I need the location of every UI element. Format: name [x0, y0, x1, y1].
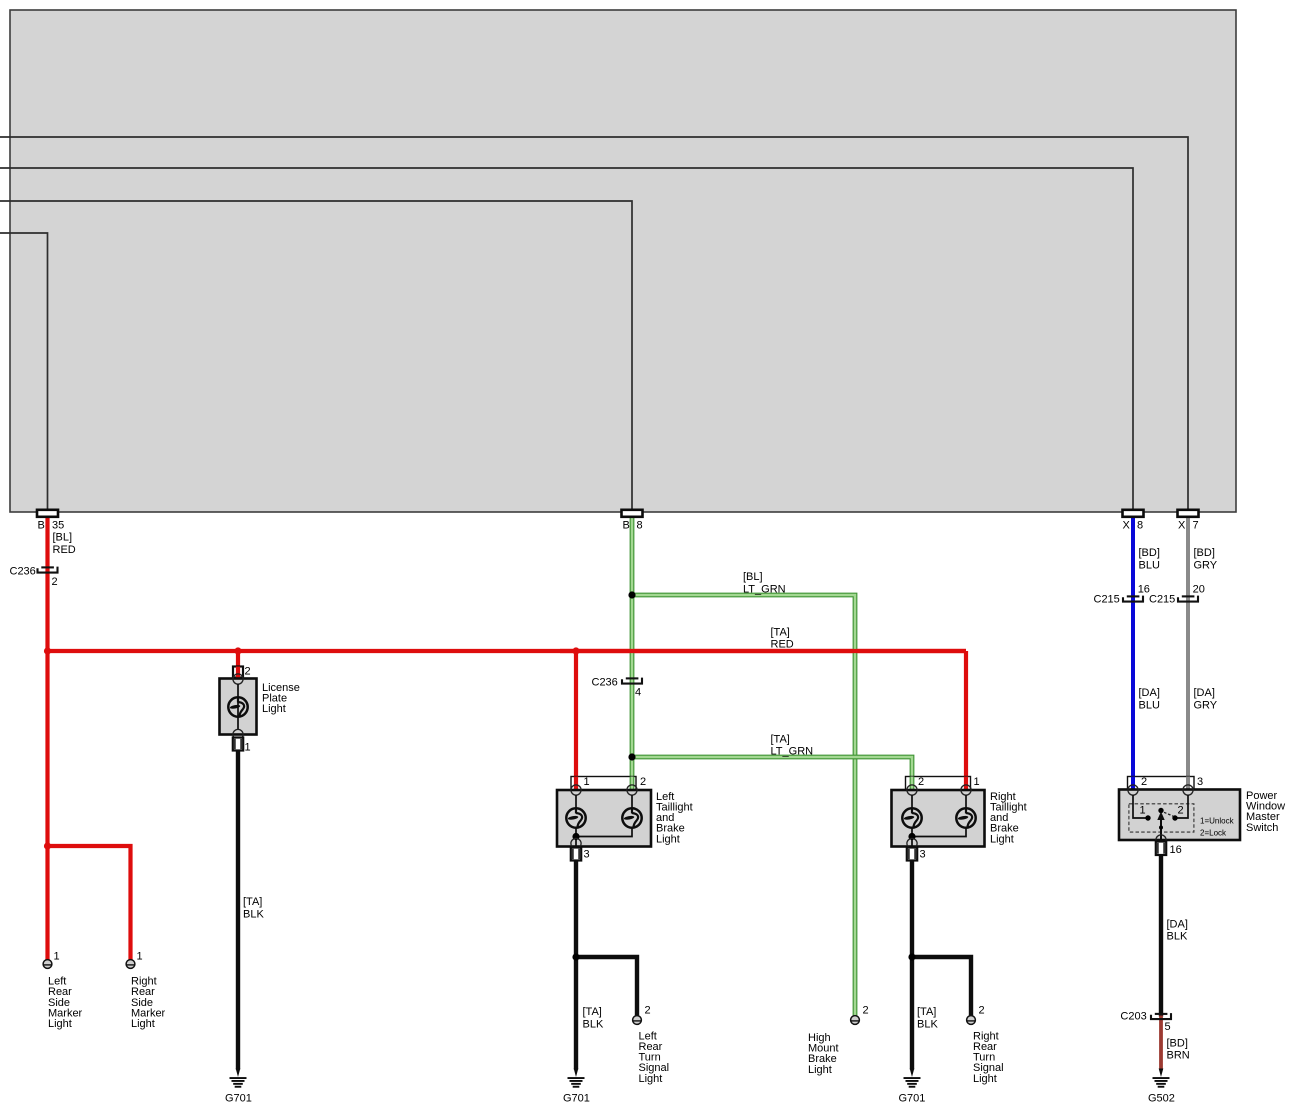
svg-text:C203: C203	[1120, 1011, 1146, 1023]
ground G701 license	[230, 1069, 247, 1088]
node junction red at C236 drop	[44, 647, 51, 654]
wire black right taillight ground	[910, 860, 914, 1070]
svg-text:2: 2	[52, 576, 58, 588]
svg-text:BRN: BRN	[1167, 1050, 1190, 1062]
wire black branch to right rear turn signal	[912, 957, 971, 1016]
svg-text:Light: Light	[808, 1064, 832, 1076]
wire green [BL] LT_GRN branch to high mount brake light	[632, 595, 855, 1016]
ground G701 right taillight	[904, 1069, 921, 1088]
terminal Left Rear Side Marker Light	[43, 960, 52, 969]
svg-text:C215: C215	[1094, 594, 1120, 606]
wire internal left taillight	[576, 795, 632, 847]
wire blue into pin 2	[1131, 777, 1135, 792]
svg-text:RED: RED	[771, 639, 794, 651]
svg-text:[BL]: [BL]	[53, 532, 73, 544]
wire W4 inside module to B35	[0, 233, 48, 511]
lamp License Plate Light box	[220, 679, 257, 735]
label Right Rear Turn Signal Light	[973, 1030, 1004, 1084]
svg-text:[BD]: [BD]	[1194, 547, 1215, 559]
label High Mount Brake Light	[808, 1032, 839, 1076]
svg-text:1: 1	[245, 741, 251, 753]
bulb right brake light	[956, 808, 975, 827]
svg-text:7: 7	[1193, 520, 1199, 532]
svg-text:C236: C236	[592, 677, 618, 689]
switch internal dashed boundary	[1129, 804, 1194, 832]
svg-text:X: X	[1178, 520, 1186, 532]
svg-text:3: 3	[584, 848, 590, 860]
svg-text:[TA]: [TA]	[243, 896, 262, 908]
svg-text:Light: Light	[973, 1073, 997, 1085]
svg-text:GRY: GRY	[1194, 699, 1218, 711]
svg-text:[BD]: [BD]	[1139, 547, 1160, 559]
svg-text:Light: Light	[990, 833, 1014, 845]
svg-text:2: 2	[245, 666, 251, 678]
svg-text:2: 2	[1178, 805, 1184, 817]
svg-text:BLU: BLU	[1139, 559, 1160, 571]
svg-text:Light: Light	[639, 1073, 663, 1085]
svg-text:1=Unlock: 1=Unlock	[1200, 816, 1235, 825]
connector housing power window master switch	[1128, 777, 1195, 790]
svg-text:1: 1	[137, 950, 143, 962]
label wire [DA] BLK	[1167, 918, 1188, 942]
svg-text:Light: Light	[656, 833, 680, 845]
connector housing right taillight	[906, 777, 971, 791]
svg-text:[TA]: [TA]	[771, 733, 790, 745]
svg-text:8: 8	[1137, 520, 1143, 532]
connector pin 2 of license plate light	[233, 667, 243, 685]
svg-text:RED: RED	[53, 544, 76, 556]
svg-text:20: 20	[1193, 584, 1205, 596]
pin circle 2	[907, 785, 917, 795]
svg-text:[TA]: [TA]	[917, 1006, 936, 1018]
svg-text:C236: C236	[10, 566, 36, 578]
bulb left taillight	[566, 808, 585, 827]
node junction internal	[908, 833, 915, 840]
svg-text:GRY: GRY	[1194, 559, 1218, 571]
svg-text:[DA]: [DA]	[1194, 687, 1215, 699]
label Power Window Master Switch	[1246, 790, 1285, 834]
wire red into pin 1	[964, 777, 968, 792]
label Right Rear Side Marker Light	[131, 976, 166, 1030]
svg-text:BLK: BLK	[243, 908, 264, 920]
label wire [TA] BLK	[917, 1006, 938, 1030]
label Left Taillight and Brake Light	[656, 791, 693, 845]
svg-text:G701: G701	[563, 1093, 590, 1105]
pin circle 1	[571, 785, 581, 795]
connector pin 3 of left taillight	[571, 848, 581, 861]
wire brown [BD] BRN to ground	[1159, 1016, 1163, 1070]
wire internal right taillight	[912, 795, 966, 847]
label Left Rear Side Marker Light	[48, 976, 83, 1030]
wire green into pin 2	[630, 777, 635, 792]
wire black branch to left rear turn signal	[576, 957, 637, 1016]
wire red bus [TA] RED horizontal	[48, 649, 967, 653]
svg-text:[TA]: [TA]	[583, 1006, 602, 1018]
node small dot on actuator	[1159, 826, 1163, 830]
label wire [BL] RED	[53, 532, 76, 556]
label wire [BD] BLU	[1139, 547, 1160, 571]
node junction green at [TA] branch	[628, 753, 635, 760]
svg-text:BLK: BLK	[1167, 931, 1188, 943]
wire red B35 vertical to left side markers	[45, 517, 49, 960]
switch common pivot	[1158, 808, 1163, 813]
switch actuator arrow	[1160, 818, 1162, 841]
svg-text:3: 3	[920, 848, 926, 860]
wire W2 inside module to X8	[0, 168, 1133, 511]
wire black left taillight ground	[574, 860, 578, 1070]
pin circle 16	[1156, 835, 1166, 845]
node junction black	[572, 953, 579, 960]
label wire [BD] BRN	[1167, 1037, 1190, 1061]
svg-text:2: 2	[645, 1004, 651, 1016]
pin circle 3	[907, 838, 917, 848]
connector C236 pin 2	[38, 567, 58, 573]
terminal High Mount Brake Light	[851, 1016, 860, 1025]
wire red into pin 1	[574, 777, 578, 792]
wire W3 inside module to B8	[0, 201, 632, 511]
svg-text:4: 4	[635, 686, 641, 698]
terminal Right Rear Turn Signal Light	[967, 1016, 976, 1025]
connector X7 at module	[1178, 510, 1199, 517]
connector pin 16 of switch	[1156, 842, 1166, 856]
svg-text:2: 2	[640, 776, 646, 788]
switch blade dashed to contact 2	[1164, 812, 1174, 816]
svg-text:B: B	[623, 520, 630, 532]
wire black license light to ground	[236, 751, 240, 1070]
label wire [TA] RED	[771, 626, 794, 650]
wire green B8 vertical	[630, 517, 635, 792]
svg-text:5: 5	[1165, 1021, 1171, 1033]
svg-text:2=Lock: 2=Lock	[1200, 828, 1227, 837]
wire gray [BD] GRY X7 vertical	[1186, 517, 1190, 792]
label Right Taillight and Brake Light	[990, 791, 1027, 845]
wire green [TA] LT_GRN branch to right taillight pin 2	[632, 757, 912, 792]
node junction internal	[572, 833, 579, 840]
wire W1 inside module to X7	[0, 137, 1188, 511]
svg-text:BLU: BLU	[1139, 699, 1160, 711]
label wire [TA] BLK	[583, 1006, 604, 1030]
svg-text:1: 1	[1140, 805, 1146, 817]
wire red drop to left taillight pin 1	[574, 651, 578, 792]
svg-text:[BD]: [BD]	[1167, 1037, 1188, 1049]
label wire [BL] LT_GRN	[743, 571, 786, 595]
wire green into pin 2	[910, 777, 915, 792]
ground G502	[1153, 1069, 1170, 1088]
terminal Right Rear Side Marker Light	[126, 960, 135, 969]
svg-text:1: 1	[974, 776, 980, 788]
svg-text:Light: Light	[131, 1018, 155, 1030]
node junction red at side marker jog	[44, 842, 51, 849]
connector C236 pin 4	[622, 678, 642, 684]
svg-text:1: 1	[584, 776, 590, 788]
pin circle 2	[627, 785, 637, 795]
node junction red at license plate light	[234, 647, 241, 654]
bulb left brake light	[622, 808, 641, 827]
contact 2	[1172, 815, 1177, 820]
contact 1	[1145, 815, 1150, 820]
svg-text:Switch: Switch	[1246, 822, 1278, 834]
bulb license plate light	[228, 697, 247, 716]
lamp Right Taillight and Brake Light box	[892, 790, 985, 847]
svg-text:LT_GRN: LT_GRN	[743, 583, 786, 595]
svg-text:B: B	[38, 520, 45, 532]
svg-text:[DA]: [DA]	[1167, 918, 1188, 930]
svg-text:Light: Light	[48, 1018, 72, 1030]
terminal Left Rear Turn Signal Light	[633, 1016, 642, 1025]
svg-text:G502: G502	[1148, 1093, 1175, 1105]
svg-text:3: 3	[1197, 776, 1203, 788]
svg-text:16: 16	[1170, 844, 1182, 856]
svg-text:2: 2	[918, 776, 924, 788]
wire black switch pin 16 down	[1159, 855, 1163, 1017]
svg-text:2: 2	[1141, 776, 1147, 788]
svg-text:G701: G701	[225, 1093, 252, 1105]
wire red drop to right taillight pin 1	[964, 651, 968, 792]
connector B35 at module	[37, 510, 58, 517]
wire blue [BD] BLU X8 vertical	[1131, 517, 1135, 792]
label wire [TA] BLK	[243, 896, 264, 920]
svg-text:BLK: BLK	[583, 1018, 604, 1030]
wire red jog to right side marker	[48, 846, 131, 960]
svg-text:1: 1	[54, 950, 60, 962]
pin circle 1	[233, 729, 243, 739]
lamp Left Taillight and Brake Light box	[557, 790, 651, 847]
label Left Rear Turn Signal Light	[639, 1030, 670, 1084]
label wire [DA] GRY	[1194, 687, 1218, 711]
svg-text:8: 8	[637, 520, 643, 532]
connector C215 pin 16	[1123, 596, 1143, 602]
connector pin 1 of license plate light	[233, 738, 243, 751]
node junction green at [BL] branch	[628, 591, 635, 598]
label wire [TA] LT_GRN	[771, 733, 814, 757]
svg-text:G701: G701	[899, 1093, 926, 1105]
wire red bus over crossings	[560, 649, 966, 653]
svg-text:2: 2	[863, 1004, 869, 1016]
connector B8 at module	[622, 510, 643, 517]
pin circle 1	[961, 785, 971, 795]
switch Power Window Master Switch box	[1119, 790, 1240, 841]
connector C215 pin 20	[1178, 596, 1198, 602]
bulb right taillight	[902, 808, 921, 827]
connector X8 at module	[1123, 510, 1144, 517]
svg-text:2: 2	[979, 1004, 985, 1016]
pin circle 2	[233, 674, 243, 684]
svg-text:35: 35	[52, 520, 64, 532]
control module block (rear junction / fuse box)	[10, 10, 1236, 512]
svg-text:[TA]: [TA]	[771, 626, 790, 638]
node junction red at left taillight	[572, 647, 579, 654]
node junction black	[908, 953, 915, 960]
label wire [BD] GRY	[1194, 547, 1218, 571]
label wire [DA] BLU	[1139, 687, 1160, 711]
svg-text:Light: Light	[262, 703, 286, 715]
svg-text:X: X	[1123, 520, 1131, 532]
wire gray into pin 3	[1186, 777, 1190, 792]
label License Plate Light	[262, 682, 300, 715]
svg-text:LT_GRN: LT_GRN	[771, 746, 814, 758]
svg-text:C215: C215	[1149, 594, 1175, 606]
svg-text:[DA]: [DA]	[1139, 687, 1160, 699]
pin circle 3	[1183, 785, 1193, 795]
svg-text:[BL]: [BL]	[743, 571, 763, 583]
connector housing left taillight	[571, 777, 636, 791]
pin circle 3	[571, 838, 581, 848]
svg-text:BLK: BLK	[917, 1018, 938, 1030]
wire red drop to license plate light pin 2	[236, 651, 240, 682]
ground G701 left taillight	[568, 1069, 585, 1088]
connector pin 3 of right taillight	[907, 848, 917, 861]
pin circle 2	[1128, 785, 1138, 795]
wire internal license lamp	[237, 684, 239, 730]
connector C203 pin 5	[1151, 1013, 1171, 1019]
wire internal switch contacts	[1133, 795, 1188, 818]
